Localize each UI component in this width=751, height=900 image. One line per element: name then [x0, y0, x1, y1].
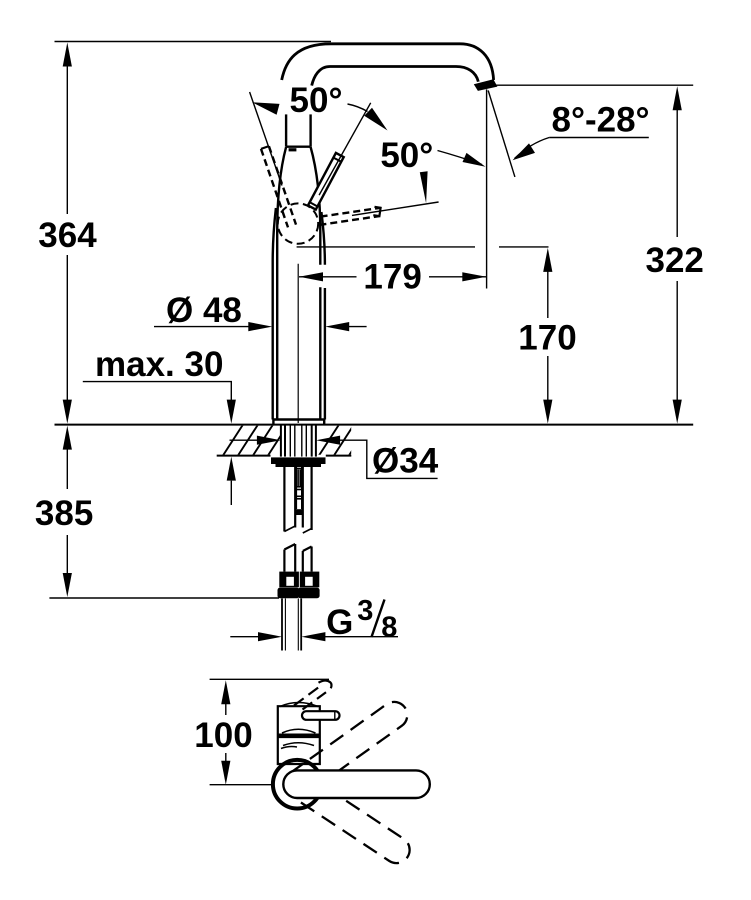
svg-text:364: 364 [38, 216, 97, 255]
svg-text:385: 385 [35, 494, 93, 533]
svg-text:3: 3 [357, 595, 373, 627]
svg-text:8: 8 [381, 612, 397, 644]
svg-text:322: 322 [645, 241, 703, 280]
svg-text:179: 179 [363, 258, 421, 297]
svg-text:50°: 50° [290, 81, 343, 120]
svg-text:8°-28°: 8°-28° [552, 100, 650, 139]
svg-text:max. 30: max. 30 [95, 345, 223, 384]
svg-text:G: G [326, 603, 353, 642]
svg-text:100: 100 [194, 716, 252, 755]
svg-text:Ø34: Ø34 [372, 442, 439, 481]
svg-text:50°: 50° [380, 136, 433, 175]
svg-text:Ø 48: Ø 48 [166, 291, 242, 330]
svg-text:170: 170 [518, 319, 576, 358]
